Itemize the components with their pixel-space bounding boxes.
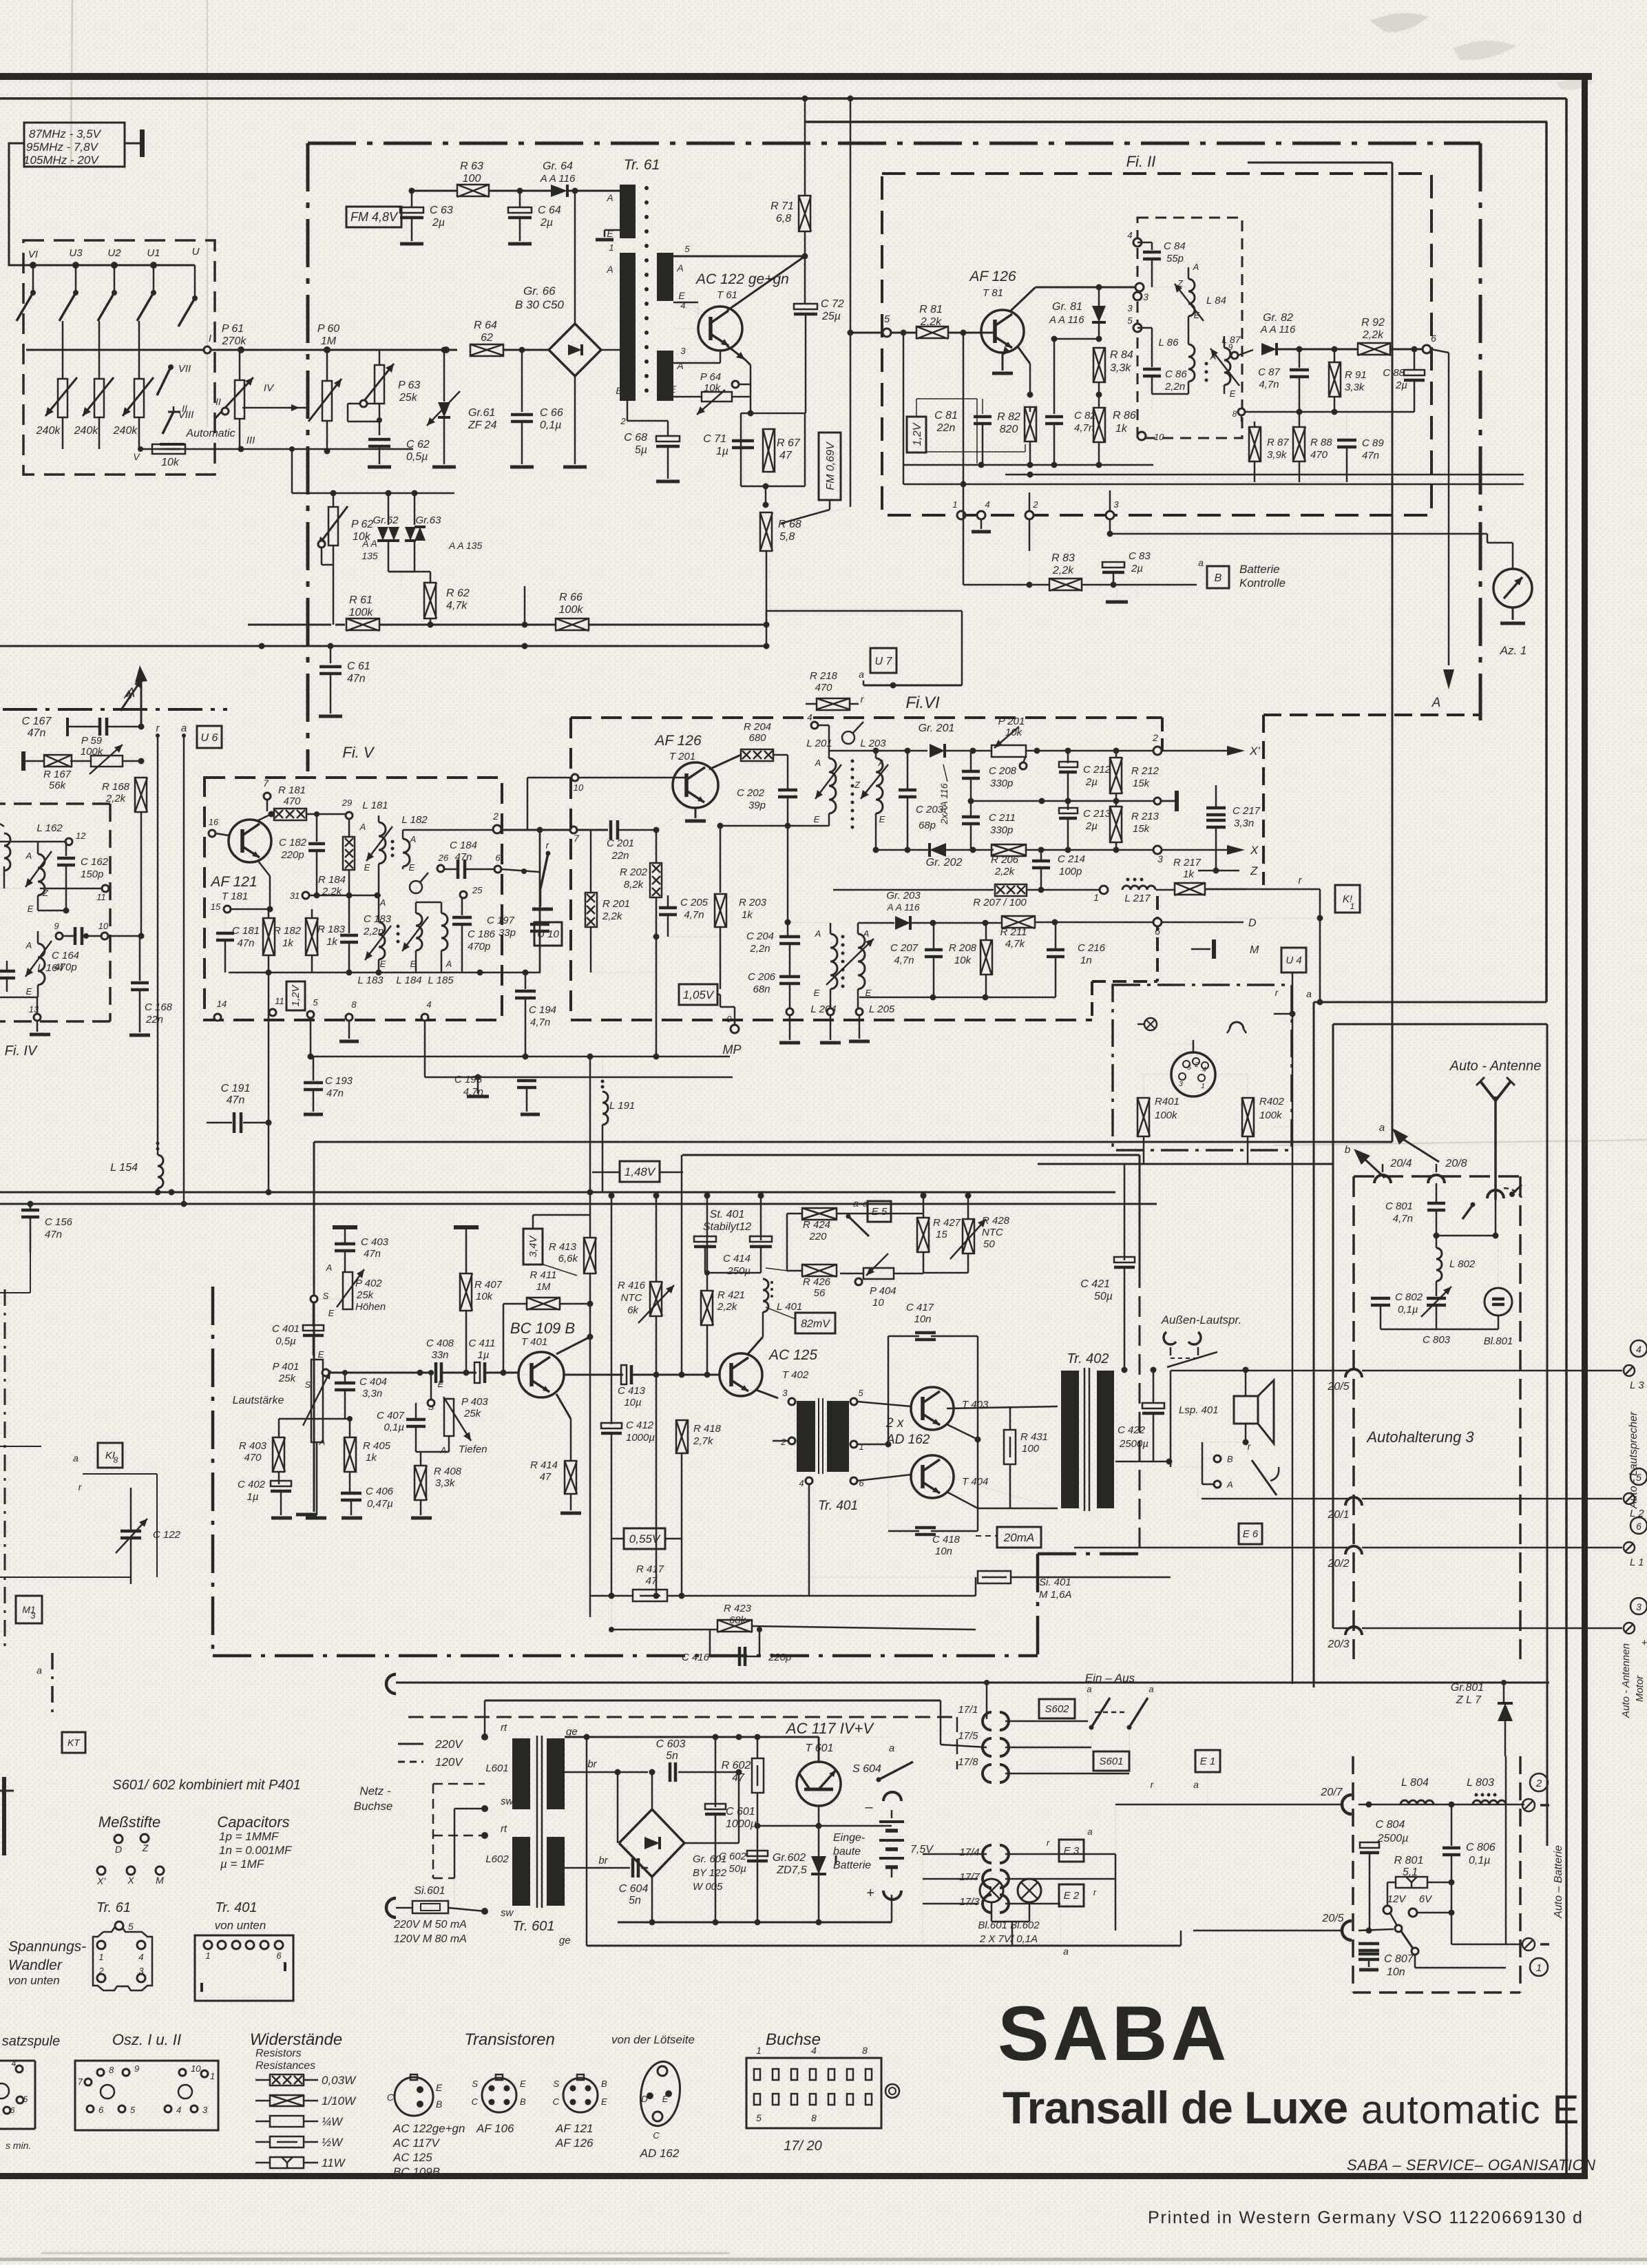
wire Tr401 6 to T404 (857, 1475, 911, 1481)
audio dash-dot box left (211, 1287, 215, 1656)
label Eingebaute Batterie (833, 1832, 871, 1871)
capacitor C207 4,7n (890, 923, 943, 997)
svg-text:R 208: R 208 (949, 942, 977, 954)
svg-text:Tr. 61: Tr. 61 (96, 1900, 131, 1915)
svg-text:C 182: C 182 (279, 837, 307, 849)
svg-text:6: 6 (1636, 1521, 1641, 1532)
boxed label FM 4,8V (346, 207, 412, 227)
ground audio box left rail (296, 1513, 317, 1517)
ground C195 (521, 1113, 540, 1116)
node Gr61 top (441, 347, 448, 353)
U4 rail down (1274, 972, 1296, 1684)
svg-text:240k: 240k (113, 425, 138, 437)
svg-text:Einge-: Einge- (833, 1832, 865, 1844)
capacitor C191 47n (207, 1083, 272, 1133)
boxed label 82mV (766, 1307, 835, 1333)
svg-text:C 186: C 186 (468, 928, 496, 940)
svg-text:R 62: R 62 (446, 587, 470, 599)
arrow A right col (1431, 669, 1454, 710)
wire R64 to bridge (503, 349, 549, 351)
transformer Tr61 primary bottom bar (620, 253, 636, 401)
svg-text:4,7n: 4,7n (1259, 379, 1279, 391)
svg-text:R 184: R 184 (318, 874, 346, 886)
svg-text:E: E (879, 814, 885, 824)
svg-text:ZD7,5: ZD7,5 (776, 1864, 807, 1876)
svg-text:IV: IV (264, 382, 275, 394)
svg-text:4,7k: 4,7k (1005, 938, 1026, 950)
svg-text:Gr.62: Gr.62 (373, 514, 399, 526)
svg-text:C 83: C 83 (1129, 550, 1151, 562)
label T404 (962, 1476, 988, 1488)
node U3 top (72, 262, 79, 269)
svg-text:Motor: Motor (1634, 1675, 1646, 1702)
label Widerstaende (250, 2030, 343, 2049)
svg-text:R 204: R 204 (744, 721, 771, 733)
svg-text:4: 4 (138, 1952, 143, 1962)
L162 pin labels (25, 851, 49, 914)
svg-text:330p: 330p (990, 778, 1013, 789)
svg-text:26: 26 (438, 853, 449, 863)
wire 4 rail down (424, 1021, 426, 1077)
svg-text:L 217: L 217 (1124, 893, 1151, 904)
svg-text:25k: 25k (278, 1373, 297, 1384)
svg-text:Kontrolle: Kontrolle (1239, 576, 1286, 590)
jack 20/3 (1345, 1627, 1622, 1635)
node II wiper (216, 396, 229, 415)
svg-text:0,5µ: 0,5µ (275, 1335, 296, 1347)
svg-text:C 68: C 68 (624, 432, 647, 444)
svg-text:a: a (1306, 988, 1312, 999)
svg-text:11: 11 (275, 996, 284, 1006)
svg-text:20/3: 20/3 (1327, 1638, 1349, 1650)
vertical text Auto-Antennen Motor (1620, 1643, 1646, 1718)
svg-text:470p: 470p (468, 941, 490, 953)
terminal 31 (290, 891, 309, 901)
svg-text:µ = 1MF: µ = 1MF (220, 1858, 265, 1871)
resistor R407 10k (460, 1229, 503, 1373)
node x762 y907 (522, 622, 528, 628)
FiV bottom wire y1412 (229, 970, 541, 976)
ground C61 (319, 715, 342, 718)
svg-text:B: B (601, 2079, 607, 2089)
svg-text:R 411: R 411 (530, 1269, 557, 1281)
capacitor C418 10n (888, 1439, 978, 1557)
page border right outer thin line (1565, 98, 1568, 2176)
svg-text:C 802: C 802 (1395, 1291, 1423, 1303)
svg-text:15: 15 (211, 902, 221, 912)
svg-text:R 183: R 183 (317, 924, 346, 935)
svg-text:C 213: C 213 (1083, 808, 1111, 820)
row 20/3 wire (1327, 1628, 1349, 1650)
ground C168 (129, 1034, 150, 1037)
vertical text Auto-Lautsprecher (1628, 1411, 1639, 1509)
diode pair Gr62 (361, 493, 399, 572)
svg-text:L 162: L 162 (36, 822, 63, 834)
pot P404 10 (840, 1253, 923, 1309)
svg-text:C 212: C 212 (1083, 764, 1111, 776)
wire R81node down (963, 333, 965, 484)
svg-text:R 68: R 68 (778, 519, 801, 530)
T601 rail down (816, 1806, 822, 1922)
svg-text:4,7k: 4,7k (446, 600, 468, 612)
boxed label B Batterie (1207, 563, 1286, 590)
svg-text:E 1: E 1 (1200, 1756, 1216, 1767)
svg-text:10n: 10n (935, 1546, 952, 1557)
label Ersatzspule (2, 2034, 61, 2049)
svg-text:2,2k: 2,2k (1362, 329, 1384, 341)
P402 wiper (311, 1296, 342, 1302)
transistor T404 AD162 (911, 1455, 954, 1498)
label 20/8 (1445, 1158, 1467, 1169)
svg-text:L601: L601 (485, 1762, 508, 1774)
wire bridge right to Tr61 (601, 349, 620, 351)
switch a audio (846, 1198, 870, 1236)
L84 labels (1177, 262, 1226, 320)
svg-text:R 91: R 91 (1345, 369, 1367, 381)
svg-text:A: A (25, 940, 32, 950)
label 240k #2 (74, 425, 99, 437)
svg-text:W 005: W 005 (693, 1881, 723, 1893)
node R84 R86 (1096, 382, 1102, 408)
svg-text:R 83: R 83 (1051, 552, 1075, 564)
jack antenna (1487, 1185, 1522, 1198)
wattage 11W (255, 2156, 346, 2170)
switch circle FiVI (842, 722, 863, 744)
svg-text:C 191: C 191 (221, 1083, 251, 1094)
inner can terminal 4 (1127, 230, 1142, 247)
svg-text:Si. 401: Si. 401 (1039, 1577, 1071, 1588)
resistor R203 rail (717, 823, 724, 893)
wire pin3 row (673, 351, 720, 363)
T403 collector down (947, 1336, 981, 1443)
variable capacitor C122 (116, 1488, 181, 1584)
bus y1534 (309, 1056, 730, 1058)
capacitor C83 2u (1102, 550, 1151, 585)
T402 collector wire (748, 1337, 763, 1354)
capacitor C156 47n (21, 1201, 73, 1253)
Tr401 socket outline (195, 1935, 293, 2001)
transformer Tr601 secondary top bar (547, 1738, 565, 1809)
capacitor C86 2,2n (1137, 328, 1187, 394)
svg-text:10n: 10n (1387, 1966, 1405, 1978)
capacitor C414 250u (723, 1193, 772, 1278)
svg-text:C 604: C 604 (619, 1883, 649, 1895)
capacitor C184 47n (444, 840, 494, 879)
svg-text:1k: 1k (326, 936, 338, 948)
label T61 (717, 289, 737, 301)
pot P401 25k volume (273, 1349, 331, 1447)
capacitor C602 50u (719, 1851, 768, 1875)
svg-text:C 181: C 181 (232, 925, 260, 937)
svg-text:Buchse: Buchse (354, 1800, 393, 1813)
P64 wiper circle (732, 381, 739, 388)
coil L162 (25, 842, 52, 911)
wire R61 to R66 (379, 624, 556, 626)
antenna symbol (1476, 1077, 1515, 1200)
long wire x2022 (1392, 163, 1394, 1142)
svg-text:C 61: C 61 (347, 660, 370, 672)
wire 10 to A rail (108, 933, 145, 939)
Tr401 socket pins (202, 1941, 285, 1992)
svg-text:BC 109 B: BC 109 B (510, 1320, 575, 1337)
row 20/2 wire (1074, 1548, 1350, 1570)
terminal 3 bottom (1106, 490, 1119, 537)
svg-text:1: 1 (1350, 902, 1355, 911)
svg-text:FM 0,69V: FM 0,69V (825, 441, 837, 490)
ground R414 (560, 1512, 581, 1515)
resistor R427 15 (917, 1193, 961, 1273)
svg-text:1k: 1k (1115, 423, 1128, 435)
resistor R181 470 xxx (274, 784, 306, 820)
label 17/20 (784, 2139, 822, 2154)
wire y1199 emitter row (720, 823, 829, 829)
svg-text:C 156: C 156 (45, 1216, 73, 1228)
svg-text:C 422: C 422 (1118, 1424, 1146, 1436)
wire P63 bottom to C62 (377, 404, 382, 435)
svg-text:1: 1 (205, 1950, 210, 1961)
svg-text:E: E (1230, 388, 1236, 399)
label Spannungs-Wandler (8, 1939, 86, 1987)
svg-text:10: 10 (98, 921, 109, 931)
capacitor C603 5n (648, 1738, 742, 1782)
svg-text:X': X' (96, 1875, 106, 1886)
svg-text:B: B (1215, 572, 1222, 584)
svg-text:Gr. 202: Gr. 202 (926, 857, 963, 868)
can exit 8 (1232, 408, 1245, 419)
svg-text:20/5: 20/5 (1327, 1381, 1349, 1393)
resistor R417 47 (590, 1563, 795, 1601)
svg-text:4: 4 (426, 999, 431, 1010)
svg-text:Fi. IV: Fi. IV (5, 1043, 38, 1059)
capacitor C604 5n (619, 1858, 652, 1906)
svg-text:3,3k: 3,3k (435, 1477, 456, 1489)
svg-text:2µ: 2µ (540, 217, 553, 229)
wattage 1/10W (255, 2094, 357, 2108)
svg-text:C 183: C 183 (364, 913, 392, 925)
page border inner line horizontal (806, 121, 1547, 123)
svg-text:Si.601: Si.601 (414, 1885, 445, 1897)
Tr61 socket outline (93, 1928, 152, 1990)
label Autohalterung 3 (1365, 1428, 1474, 1446)
T81 emitter gnd (992, 346, 1013, 373)
svg-text:100k: 100k (1155, 1110, 1178, 1121)
svg-text:Meßstifte: Meßstifte (98, 1813, 160, 1831)
ground R408 (411, 1517, 432, 1520)
node VI top (30, 262, 36, 269)
svg-text:4,7n: 4,7n (1393, 1213, 1413, 1225)
switch arm U2 (98, 265, 117, 321)
A rail down (140, 813, 143, 936)
resistor R64 62 (470, 320, 503, 356)
svg-text:I: I (209, 333, 211, 344)
svg-text:R 414: R 414 (530, 1459, 558, 1471)
svg-text:E: E (318, 1349, 324, 1360)
svg-text:3: 3 (31, 1611, 36, 1621)
svg-text:5: 5 (313, 997, 318, 1008)
svg-text:3,9k: 3,9k (1267, 449, 1288, 461)
svg-text:3: 3 (1143, 291, 1148, 302)
svg-text:A: A (1226, 1479, 1233, 1490)
svg-text:C 202: C 202 (737, 787, 765, 799)
label L154 (110, 1162, 138, 1174)
nested L wire 2 (1333, 1024, 1547, 1846)
Osz box (75, 2061, 218, 2130)
svg-text:R 86: R 86 (1113, 410, 1136, 422)
wire P64 down (750, 397, 752, 413)
audio box top wire (314, 1142, 1392, 1512)
svg-text:A: A (1193, 262, 1199, 272)
svg-text:1/10W: 1/10W (322, 2094, 357, 2108)
svg-text:680: 680 (748, 732, 766, 744)
Fi VI dashed box left (569, 718, 572, 1020)
pot P402 25k Hoehen (323, 1262, 386, 1318)
Osz pins left (78, 2077, 92, 2087)
wire pin5 row (673, 253, 808, 260)
svg-text:AC 117 IV+V: AC 117 IV+V (785, 1720, 874, 1737)
wire y1690 (1038, 1164, 1333, 1628)
br tap upper (565, 1758, 655, 1776)
lamp Bl602 (1018, 1879, 1041, 1902)
svg-text:R 212: R 212 (1131, 765, 1160, 777)
resistor R67 47 (763, 413, 801, 486)
M output gnd (1191, 939, 1259, 959)
svg-text:AC 122 ge+gn: AC 122 ge+gn (695, 271, 789, 287)
wire R83 rail down (963, 484, 965, 585)
vertical text Auto-Batterie (1553, 1845, 1564, 1919)
wire 20/7 row to battery region (1115, 1804, 1116, 1854)
svg-text:Stabilyt12: Stabilyt12 (703, 1221, 751, 1233)
coil L802 (1436, 1236, 1476, 1296)
svg-text:A: A (676, 262, 683, 273)
svg-text:A: A (863, 928, 870, 939)
transformer Tr601 primary bottom bar (512, 1837, 530, 1906)
svg-text:C 216: C 216 (1078, 942, 1106, 954)
label a T601 (889, 1742, 894, 1754)
svg-text:7: 7 (574, 833, 580, 844)
capacitor C194 4,7n (515, 972, 556, 1060)
svg-text:C: C (387, 2092, 395, 2103)
svg-text:BC 109B: BC 109B (393, 2165, 440, 2178)
Tr401 pin 3 (782, 1388, 795, 1405)
svg-text:–: – (864, 1800, 873, 1815)
switch VII (157, 363, 191, 395)
label SABA-SERVICE-OGANISATION (1347, 2156, 1596, 2174)
wire C201 T201 base link (655, 829, 657, 831)
svg-text:2: 2 (780, 1437, 786, 1447)
jack 20/8 (1428, 1164, 1445, 1183)
X row wire 2 (946, 847, 994, 853)
Buchse numbers bottom (756, 2112, 817, 2123)
page bottom edge shadow (0, 2252, 1647, 2261)
svg-text:10n: 10n (914, 1313, 931, 1325)
svg-text:AD 162: AD 162 (885, 1433, 930, 1447)
svg-text:S601/ 602 kombiniert mit P401: S601/ 602 kombiniert mit P401 (112, 1778, 301, 1793)
svg-text:AC 122ge+gn: AC 122ge+gn (392, 2122, 465, 2135)
capacitor C186 470p (452, 898, 496, 972)
resistor R168 2,2k (102, 778, 147, 812)
Tr601 pin sw mid (454, 1796, 514, 1812)
svg-text:A: A (815, 928, 821, 939)
svg-text:6: 6 (495, 853, 501, 863)
svg-text:R 206: R 206 (991, 854, 1019, 866)
wire R66 right (589, 624, 766, 626)
node P62 top (331, 490, 337, 497)
boxed label KI 1 (1335, 885, 1360, 913)
svg-text:Lsp. 401: Lsp. 401 (1179, 1404, 1219, 1416)
label Buchse (766, 2030, 821, 2049)
main audio wire (329, 1370, 434, 1376)
label ge top (566, 1726, 578, 1738)
capacitor C403 47n (335, 1229, 389, 1271)
D row wire (858, 920, 1003, 926)
svg-text:1: 1 (609, 242, 613, 253)
coil L154 on rail (156, 1142, 164, 1193)
svg-text:8: 8 (862, 2045, 868, 2056)
label Transistoren (464, 2030, 695, 2049)
svg-text:P 401: P 401 (273, 1361, 300, 1373)
svg-text:R 67: R 67 (777, 437, 801, 449)
wire 5 rail down (308, 1018, 314, 1060)
svg-text:9: 9 (134, 2063, 139, 2074)
transformer Tr401 secondary bar (827, 1401, 849, 1472)
Fi II collector wire y417 (1036, 284, 1137, 291)
svg-text:1µ: 1µ (478, 1349, 490, 1361)
wire P62 bottom to bus (333, 585, 335, 625)
svg-text:120V: 120V (435, 1756, 463, 1769)
svg-text:R 167: R 167 (43, 769, 72, 780)
wire bridge bottom to gnd bus (574, 376, 576, 464)
label Resistors Resistances (255, 2048, 315, 2072)
capacitor C183 2,2n (340, 895, 392, 972)
svg-text:47n: 47n (454, 851, 472, 863)
resistor R68 5,8 (760, 512, 801, 551)
svg-text:1k: 1k (742, 909, 753, 921)
voltage table box 87/95/105MHz (23, 123, 125, 167)
svg-text:X: X (127, 1875, 134, 1886)
svg-text:R 82: R 82 (997, 411, 1020, 423)
svg-text:satzspule: satzspule (2, 2034, 61, 2049)
wire 2 to C201 (501, 826, 608, 833)
svg-text:9: 9 (1228, 342, 1233, 352)
battery bottom wire (891, 1895, 893, 1922)
label I (209, 333, 211, 344)
svg-text:b: b (1345, 1144, 1350, 1156)
resistor R416 NTC 6k (618, 1193, 674, 1596)
svg-text:1k: 1k (282, 937, 294, 949)
terminal 3 circle (1135, 283, 1148, 302)
svg-text:br: br (598, 1855, 608, 1866)
rail a label (181, 722, 187, 738)
wire battery feed (757, 1825, 892, 1827)
capacitor C214 100p (1032, 850, 1085, 890)
capacitor C806 0,1u (1443, 1804, 1496, 1911)
svg-text:R 181: R 181 (278, 784, 306, 796)
diode Gr202 (926, 843, 963, 868)
svg-text:1: 1 (1536, 1962, 1542, 1974)
nested L wire 1 (1314, 1002, 1546, 1687)
svg-text:Gr. 203: Gr. 203 (886, 890, 921, 902)
node V (138, 446, 143, 452)
speaker jack hooks (1164, 1332, 1201, 1344)
coil L201 (815, 751, 841, 826)
svg-text:A A 116: A A 116 (1049, 314, 1084, 326)
pot P61 (215, 350, 253, 449)
wire R71 bottom (804, 231, 806, 256)
svg-text:L 182: L 182 (401, 814, 428, 826)
svg-text:E: E (814, 988, 820, 998)
boxed label U4 (1281, 948, 1306, 972)
Fi II lower bus y700 segment (1241, 481, 1347, 483)
